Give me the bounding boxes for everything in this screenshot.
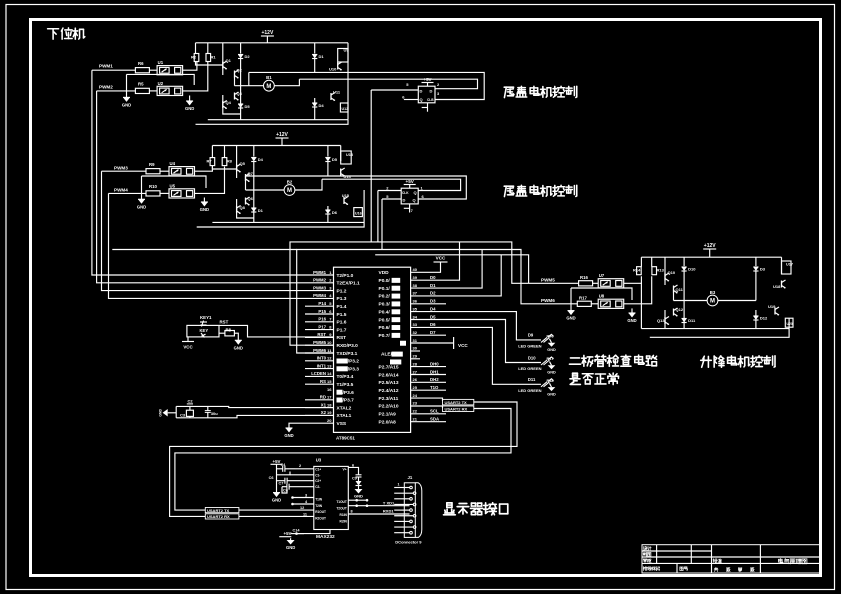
transistor Q6 <box>246 196 254 206</box>
pin 2 DB9 <box>394 492 416 495</box>
ground MAX right <box>355 489 363 494</box>
wire KEY to R8 <box>219 332 225 334</box>
wire Q8 column <box>237 199 254 218</box>
pin 5 DB9 <box>394 509 412 512</box>
svg-text:R5: R5 <box>138 82 144 87</box>
svg-text:2: 2 <box>299 464 301 468</box>
wire USART TX to MAX232 <box>239 509 314 511</box>
svg-text:23: 23 <box>413 401 418 406</box>
svg-text:37: 37 <box>413 291 418 296</box>
svg-text:+12V: +12V <box>276 132 288 138</box>
svg-text:D1: D1 <box>430 283 436 288</box>
transistor U9 <box>338 49 348 63</box>
svg-text:30u: 30u <box>211 411 218 416</box>
svg-text:GND: GND <box>234 345 243 350</box>
capacitor <box>287 484 289 490</box>
svg-text:C6: C6 <box>269 476 274 480</box>
diode D12 <box>753 316 768 321</box>
svg-text:P2.3/A11: P2.3/A11 <box>379 396 399 402</box>
wire D2 bus <box>411 255 502 296</box>
pin 33 D6 <box>379 322 437 331</box>
svg-text:1: 1 <box>398 483 400 487</box>
svg-text:13: 13 <box>327 363 332 368</box>
transistor Q2 <box>235 68 243 79</box>
wire U5 to ground <box>203 198 205 203</box>
resistor R9 <box>146 162 160 174</box>
wire R2 to Q1 base <box>196 62 223 66</box>
svg-text:PWM3: PWM3 <box>114 166 128 171</box>
pin 11 PWM6 <box>305 348 358 357</box>
svg-text:VCC: VCC <box>436 256 446 261</box>
flip-flop U6b box <box>401 188 418 204</box>
svg-text:P0.7/: P0.7/ <box>379 333 391 339</box>
pin 10 PWM5 <box>305 340 358 349</box>
svg-text:U15: U15 <box>342 193 350 198</box>
wire Q1 column <box>222 43 224 75</box>
svg-text:USART2 RX: USART2 RX <box>445 406 468 411</box>
svg-text:U7: U7 <box>599 273 605 278</box>
wire D3 stub <box>411 303 446 305</box>
svg-text:VCC: VCC <box>183 345 193 350</box>
wire R8 to ground <box>234 333 238 340</box>
pin 15 RS <box>305 379 354 388</box>
svg-text:LED GREEN: LED GREEN <box>518 343 541 348</box>
wire bridge3 top rail <box>641 256 781 258</box>
wire U7 out <box>624 276 642 283</box>
svg-text:/P3.3: /P3.3 <box>348 366 360 372</box>
wire FF1 pin5 long <box>371 89 418 91</box>
svg-text:33: 33 <box>413 322 418 327</box>
resistor R8b <box>222 158 232 166</box>
resistor R10 <box>146 184 160 196</box>
resistor R16 <box>579 275 593 286</box>
svg-text:RST: RST <box>337 335 347 341</box>
svg-text:SDA: SDA <box>430 416 439 421</box>
svg-text:RS: RS <box>320 379 326 384</box>
wire to C8 <box>282 486 287 488</box>
wire C8 to pin <box>289 486 314 488</box>
svg-text:U8: U8 <box>599 294 605 299</box>
wire +12V stem 3 <box>709 249 711 257</box>
wire U8 to ground <box>631 308 633 313</box>
wire to D4 <box>314 98 316 103</box>
wire pin31 EA to VCC <box>411 342 454 344</box>
pin 9 DB9 <box>394 531 412 534</box>
wire bridge2 right col <box>340 146 342 162</box>
svg-text:D4: D4 <box>319 103 325 108</box>
svg-text:7: 7 <box>411 209 413 213</box>
svg-text:LCDEN: LCDEN <box>311 371 326 376</box>
wire PWM5 route <box>290 242 579 345</box>
ground G3 <box>137 199 146 209</box>
svg-text:R10: R10 <box>149 184 157 189</box>
svg-text:P0.1/: P0.1/ <box>379 286 391 292</box>
transistor Q3 <box>235 91 243 101</box>
wire D7 stub <box>411 334 446 336</box>
wire Q10 column <box>664 257 666 285</box>
svg-text:Q3: Q3 <box>237 91 243 96</box>
wire PWM3 to MCU pin3 <box>102 171 334 290</box>
svg-text:P0.6/: P0.6/ <box>379 325 391 331</box>
svg-text:VDD: VDD <box>379 270 390 276</box>
wire T1OUT to DB9 <box>348 505 409 507</box>
optocoupler U7 <box>598 273 624 288</box>
svg-text:P17: P17 <box>318 324 326 329</box>
svg-text:R13: R13 <box>657 268 665 273</box>
svg-text:GND: GND <box>547 392 556 396</box>
svg-text:C3: C3 <box>180 412 186 417</box>
transistor U18 <box>773 280 786 289</box>
svg-text:USART2 TX: USART2 TX <box>207 508 230 513</box>
svg-text:D10: D10 <box>528 355 536 360</box>
wire to D4b <box>253 146 255 157</box>
label strokes 2 <box>504 185 577 196</box>
wire X2 row <box>176 415 333 417</box>
svg-text:31: 31 <box>413 338 418 343</box>
svg-text:D0: D0 <box>430 275 436 280</box>
wire PWM2 to MCU pin2 <box>97 91 334 283</box>
label strokes 6 <box>444 503 508 515</box>
svg-text:C1-: C1- <box>315 473 320 477</box>
wire PWM4 to MCU pin4 <box>109 193 334 298</box>
svg-text:X1: X1 <box>321 402 327 407</box>
svg-text:Q13: Q13 <box>657 318 665 323</box>
svg-text:GND: GND <box>286 545 295 550</box>
wire PWM1 to R6 <box>92 69 135 71</box>
svg-text:GND: GND <box>284 433 293 438</box>
LED D9 <box>528 333 554 343</box>
svg-text:C1+: C1+ <box>315 467 321 471</box>
wire bridge3 right col <box>781 257 783 274</box>
svg-text:P2.6/A14: P2.6/A14 <box>379 372 399 378</box>
net label USART2 RX (bottom) <box>205 514 239 519</box>
resistor R5 <box>135 82 149 94</box>
svg-text:T2EX/P1.1: T2EX/P1.1 <box>337 281 361 287</box>
wire C7 to pin <box>287 480 314 482</box>
wire to D6 <box>327 206 329 210</box>
wire bridge1 output B to FF1 pin2 <box>299 79 477 89</box>
svg-text:D9: D9 <box>528 333 534 338</box>
wire to D12 <box>755 310 757 316</box>
svg-text:17: 17 <box>327 395 332 400</box>
key box KEY <box>187 325 219 337</box>
svg-text:T1O: T1O <box>430 385 439 390</box>
wire pin2 <box>295 468 314 470</box>
pin 4 PWM4 <box>313 293 347 302</box>
optocoupler U1 <box>157 60 183 75</box>
svg-text:D4: D4 <box>258 157 264 162</box>
MAX232 U3 box <box>314 466 349 529</box>
transistor U20 <box>785 318 793 327</box>
wire C4 to pin <box>285 468 295 470</box>
pin 12 INT0 <box>305 356 359 365</box>
svg-text:X2: X2 <box>321 410 327 415</box>
wire led to gnd stem <box>550 339 552 343</box>
svg-text:B3: B3 <box>710 290 716 295</box>
svg-text:P1.3: P1.3 <box>337 296 347 302</box>
capacitor C14 dot <box>295 532 298 535</box>
wire to C7 <box>277 480 285 482</box>
svg-text:8: 8 <box>351 510 353 514</box>
wire pin29 stub <box>411 358 420 360</box>
diode D11 <box>682 318 696 323</box>
svg-text:GND: GND <box>185 106 194 111</box>
svg-text:D: D <box>403 198 406 203</box>
wire KEY to MCU RST <box>219 325 334 337</box>
svg-text:INT0: INT0 <box>317 356 327 361</box>
svg-text:R47: R47 <box>547 357 554 361</box>
svg-text:Q: Q <box>414 190 417 195</box>
svg-text:25: 25 <box>413 385 418 390</box>
svg-text:P2.7/A15: P2.7/A15 <box>379 364 399 370</box>
wire U1 out to R2 node <box>183 62 197 70</box>
wire U8 out <box>624 276 652 304</box>
svg-text:INT1: INT1 <box>317 363 327 368</box>
wire motor3 right lead <box>718 300 756 302</box>
svg-text:D2: D2 <box>245 54 251 59</box>
wire R5 to U2 <box>149 90 157 92</box>
svg-text:38: 38 <box>413 283 418 288</box>
wire bridge2 outer bottom <box>197 190 364 227</box>
svg-text:U12: U12 <box>342 107 349 111</box>
transistor Q12 <box>674 307 684 317</box>
wire <box>640 257 642 267</box>
svg-text:T2OUT: T2OUT <box>336 507 347 511</box>
svg-text:P0.0/: P0.0/ <box>379 278 391 284</box>
diode D1 bridge2 <box>251 208 263 213</box>
svg-text:PWM6: PWM6 <box>541 298 555 303</box>
svg-text:PWM3: PWM3 <box>313 285 327 290</box>
pin 6 FF1 <box>404 99 418 101</box>
capacitor <box>285 478 287 484</box>
svg-text:DH2: DH2 <box>430 377 439 382</box>
transistor Q13 <box>657 317 669 326</box>
pin 4 DB9 <box>394 503 416 506</box>
svg-text:24: 24 <box>413 393 418 398</box>
svg-text:PWM2: PWM2 <box>313 278 327 283</box>
svg-text:P2.5/A13: P2.5/A13 <box>379 380 399 386</box>
wire D0 bus <box>411 242 460 280</box>
wire D4b down <box>253 162 255 223</box>
net label USART2 TX (bottom) <box>205 508 239 513</box>
pin 32 D7 <box>379 330 437 339</box>
svg-text:T XD1: T XD1 <box>383 500 395 505</box>
svg-text:22: 22 <box>413 409 418 414</box>
pin 14 LCDEN <box>305 371 354 380</box>
svg-text:P1.5: P1.5 <box>337 312 347 318</box>
svg-text:D10: D10 <box>688 267 696 272</box>
optocoupler U8 <box>598 294 624 309</box>
motor B3 <box>707 290 718 306</box>
svg-text:KEY: KEY <box>200 328 209 333</box>
wire P2 stub 1 <box>411 374 446 376</box>
svg-text:R14: R14 <box>633 268 641 273</box>
transistor Q5 <box>237 161 246 173</box>
svg-text:LED GREEN: LED GREEN <box>518 388 541 393</box>
svg-text:R2OUT: R2OUT <box>315 517 326 521</box>
wire pin23 to USART RX <box>411 406 443 408</box>
svg-text:32: 32 <box>413 330 418 335</box>
svg-text:U11: U11 <box>333 90 341 95</box>
svg-text:DConnector 9: DConnector 9 <box>395 539 422 544</box>
resistor R8 <box>225 327 235 336</box>
svg-text:T0/P3.4: T0/P3.4 <box>337 374 354 380</box>
ground LED D11 <box>548 387 556 391</box>
wire to D3 <box>755 257 757 266</box>
svg-text:M: M <box>287 188 292 194</box>
svg-text:GND: GND <box>159 408 163 416</box>
power +12V bridge2 <box>276 132 289 138</box>
svg-text:MAX232: MAX232 <box>316 534 335 540</box>
svg-text:PWM6: PWM6 <box>313 348 327 353</box>
label strokes 1 <box>504 86 577 97</box>
wire USART RX to MAX232 <box>239 515 314 517</box>
svg-text:U4: U4 <box>170 161 176 166</box>
wire motor2 left lead <box>246 189 285 191</box>
capacitor 30u <box>207 406 209 410</box>
svg-text:CLB: CLB <box>427 98 434 102</box>
wire led to gnd stem <box>550 383 552 387</box>
wire U5 out <box>195 167 225 194</box>
svg-text:P1.7: P1.7 <box>337 327 347 333</box>
svg-text:P1.4: P1.4 <box>337 304 347 310</box>
wire pin20 to ground <box>289 423 334 428</box>
svg-text:D3: D3 <box>760 267 766 272</box>
pin 30 ALE/PROG <box>381 346 418 358</box>
pin 8 P17 <box>305 324 347 333</box>
svg-text:12: 12 <box>327 356 332 361</box>
pin 36 D3 <box>379 299 437 308</box>
svg-text:PWM2: PWM2 <box>99 85 113 90</box>
power +12V bridge3 <box>703 243 716 249</box>
label strokes 5 <box>701 356 775 368</box>
svg-text:P2.1/A9: P2.1/A9 <box>379 412 397 418</box>
wire PWM3 to R9 <box>102 170 147 172</box>
svg-text:26: 26 <box>413 377 418 382</box>
svg-text:J1: J1 <box>408 475 413 480</box>
power VCC EA <box>453 337 455 349</box>
svg-text:P0.4/: P0.4/ <box>379 309 391 315</box>
svg-text:39: 39 <box>413 275 418 280</box>
pin 20 nc <box>327 418 347 427</box>
wire <box>651 257 653 267</box>
svg-text:18: 18 <box>327 402 332 407</box>
pin 1 DB9 <box>394 483 412 489</box>
svg-text:/P3.6: /P3.6 <box>343 390 355 396</box>
svg-text:D11: D11 <box>688 318 696 323</box>
wire USART RX loop <box>175 409 511 511</box>
svg-text:LED GREEN: LED GREEN <box>518 366 541 371</box>
wire bus D2 right <box>375 255 528 283</box>
svg-text:P0.3/: P0.3/ <box>379 302 391 308</box>
svg-text:GND: GND <box>547 371 556 375</box>
transistor Q11 <box>674 285 684 294</box>
svg-text:12: 12 <box>300 506 304 510</box>
ground MAX bottom <box>287 540 295 545</box>
wire bridge2 bottom rail <box>212 221 364 223</box>
svg-text:R2IN: R2IN <box>340 520 348 524</box>
svg-text:XTAL2: XTAL2 <box>337 405 352 411</box>
svg-text:GND: GND <box>354 494 363 499</box>
wire to D5b <box>327 146 329 157</box>
wire D5b down <box>327 162 329 177</box>
pin 13 INT1 <box>305 363 359 372</box>
svg-text:D4: D4 <box>430 306 436 311</box>
pin 1 PWM1 <box>313 270 354 279</box>
wire pin6 <box>290 474 314 476</box>
svg-text:R8: R8 <box>227 159 233 164</box>
svg-text:M: M <box>266 84 271 90</box>
pin 5 FF2 <box>382 198 401 200</box>
svg-text:D5: D5 <box>245 104 251 109</box>
ground KEY <box>234 340 243 350</box>
resistor R6 <box>135 61 149 73</box>
svg-text:D11: D11 <box>528 377 536 382</box>
pin 21 SDA <box>379 416 440 425</box>
svg-text:Q7: Q7 <box>248 171 254 176</box>
transistor U15 <box>342 193 350 205</box>
wire FF2 pin2 down to bus <box>377 191 379 242</box>
svg-text:19: 19 <box>327 410 332 415</box>
svg-text:3: 3 <box>305 494 307 498</box>
wire +12V stem 2 <box>281 138 283 146</box>
svg-text:+5V: +5V <box>284 531 292 536</box>
svg-text:D: D <box>430 88 433 93</box>
wire U2 to ground <box>189 96 191 102</box>
wire D4 down <box>314 107 316 120</box>
svg-text:C2: C2 <box>188 399 194 404</box>
wire <box>211 146 213 158</box>
transistor Q4 <box>223 100 232 109</box>
svg-text:R1IN: R1IN <box>340 513 348 517</box>
pin 25 T1O <box>379 385 440 394</box>
wire D1 down <box>314 59 316 73</box>
optocoupler U4 <box>169 161 195 176</box>
wire to ground 1 <box>126 74 128 97</box>
capacitor <box>283 466 285 472</box>
pin 7 P16 <box>305 317 347 326</box>
svg-text:R1: R1 <box>211 55 217 60</box>
svg-text:P0.2/: P0.2/ <box>379 294 391 300</box>
svg-text:PWM5: PWM5 <box>541 278 555 283</box>
svg-text:P0.5/: P0.5/ <box>379 317 391 323</box>
wire gnd stem bottom <box>290 538 292 540</box>
svg-text:Q4: Q4 <box>226 100 232 105</box>
MCU U2 AT89C51 box <box>334 267 411 432</box>
svg-text:U19: U19 <box>768 304 776 309</box>
wire R1IN to DB9 <box>348 513 409 515</box>
svg-text:GND: GND <box>122 102 131 107</box>
wire KEY to VCC <box>187 337 189 342</box>
wire FF2 pin2 long <box>378 190 401 192</box>
svg-text:+5V: +5V <box>424 77 432 82</box>
svg-text:15: 15 <box>327 379 332 384</box>
svg-text:P2.4/A12: P2.4/A12 <box>379 388 399 394</box>
wire USART TX loop <box>170 402 517 516</box>
svg-text:U5: U5 <box>170 183 176 188</box>
diode D3 bridge3 <box>753 267 765 272</box>
transistor U14 <box>341 168 352 179</box>
wire <box>195 43 197 54</box>
svg-text:C2-: C2- <box>315 485 320 489</box>
wire +12V stem <box>266 36 268 43</box>
svg-text:VCC: VCC <box>458 343 468 348</box>
svg-text:R9: R9 <box>149 162 155 167</box>
pin 2 PWM2 <box>313 278 360 287</box>
wire +5V to FF2 <box>409 185 411 189</box>
svg-text:DH1: DH1 <box>430 369 439 374</box>
svg-text:34: 34 <box>413 314 418 319</box>
